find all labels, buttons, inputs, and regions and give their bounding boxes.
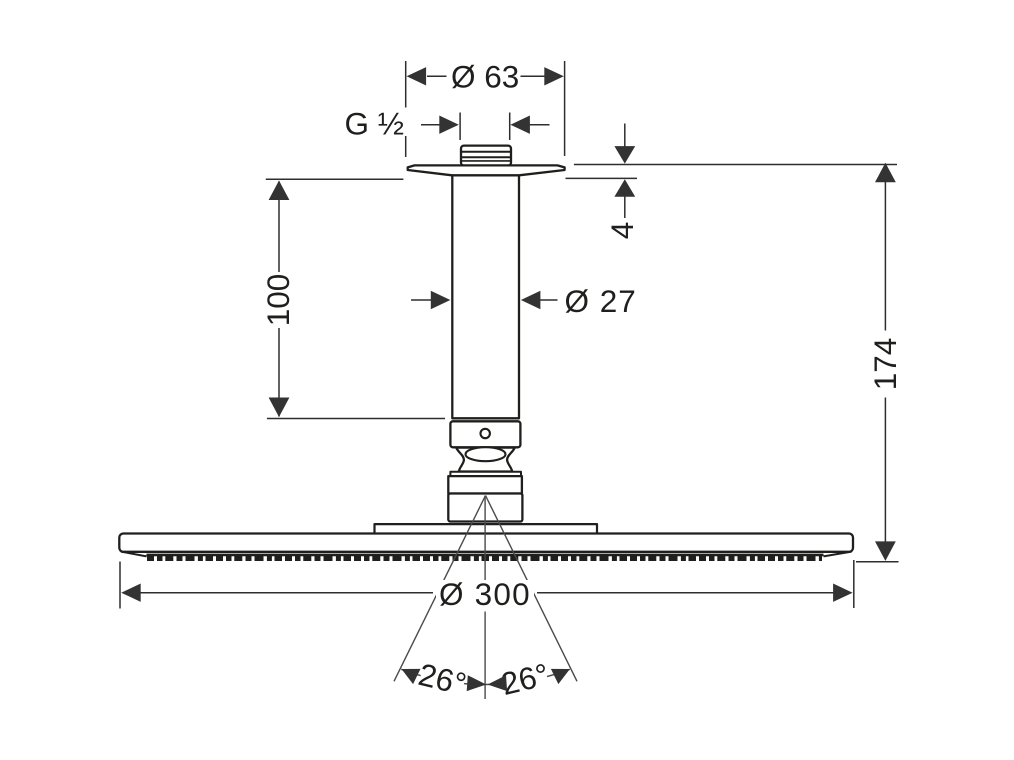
arrowheads <box>121 67 896 692</box>
arrow G1/2 right <box>510 116 530 134</box>
arrow 174 down <box>875 541 896 561</box>
svg-text:174: 174 <box>867 338 903 391</box>
nozzle dash band <box>147 556 822 561</box>
arrow O27 right <box>521 291 541 309</box>
dim G1/2 line <box>421 124 550 126</box>
pipe body <box>452 170 519 418</box>
dimension lines <box>120 61 899 609</box>
arrow O63 right <box>544 67 564 85</box>
arrow dim4 down <box>614 146 635 164</box>
label O300 with white backing <box>436 580 534 608</box>
arrow angle right outer <box>551 661 574 684</box>
collar hole <box>481 429 490 438</box>
arrow 174 up <box>875 163 896 183</box>
arrow G1/2 left <box>439 116 459 134</box>
dim O27 shafts <box>411 299 558 301</box>
arrow O27 left <box>431 291 451 309</box>
arrow angle center left <box>467 675 487 692</box>
collar box <box>450 421 520 447</box>
head bottom bevels <box>121 552 852 557</box>
dim G1/2 extension lines <box>460 113 510 141</box>
svg-text:100: 100 <box>260 274 296 327</box>
svg-text:G ½: G ½ <box>345 106 405 142</box>
dim 4 shafts and reference lines <box>566 124 898 219</box>
shower head disc <box>119 534 853 552</box>
product group <box>119 146 853 552</box>
spray cone lines <box>394 496 577 700</box>
spray plate edge line <box>147 554 824 557</box>
spray line right <box>486 496 578 682</box>
arrow O300 left <box>121 584 141 602</box>
dim 174 line <box>884 164 886 560</box>
arrow 100 up <box>269 181 290 201</box>
label 26 right with white backing <box>498 656 553 702</box>
dim O63 extension lines <box>406 61 565 157</box>
dim O300 extension lines <box>120 560 854 609</box>
arrow dim4 up <box>614 179 635 197</box>
dim 174 bottom reference <box>856 561 899 563</box>
dim O300 line <box>123 592 851 594</box>
svg-text:Ø 63: Ø 63 <box>451 59 519 95</box>
ceiling flange <box>408 165 565 175</box>
arrow angle left outer <box>398 661 421 684</box>
arrow O300 right <box>833 584 853 602</box>
label 26 left with white backing <box>415 656 470 702</box>
svg-text:4: 4 <box>604 222 640 240</box>
svg-text:Ø 27: Ø 27 <box>565 283 637 319</box>
lower housing box <box>448 494 522 522</box>
dim 100 extension lines <box>266 179 445 418</box>
spray line left <box>394 496 486 682</box>
arrow angle center right <box>487 675 507 692</box>
dim 100 line <box>278 182 280 417</box>
ball ellipse <box>466 447 506 461</box>
arrow O63 left <box>407 67 427 85</box>
thread nipple G1/2 <box>461 146 511 166</box>
mounting plate <box>375 524 598 534</box>
ball joint waist <box>456 448 515 472</box>
dim O63 line <box>427 75 547 77</box>
svg-text:Ø 300: Ø 300 <box>439 576 531 612</box>
angle arc <box>401 669 570 684</box>
spray center line <box>484 496 486 700</box>
arrow 100 down <box>269 398 290 418</box>
thin ring band <box>450 472 521 476</box>
upper housing box <box>448 476 522 493</box>
